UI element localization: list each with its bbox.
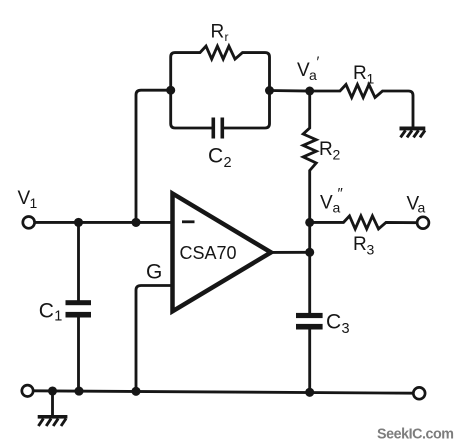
svg-text:C: C — [326, 311, 341, 334]
svg-text:CSA70: CSA70 — [180, 243, 237, 263]
svg-text:SeekIC.com: SeekIC.com — [377, 427, 454, 443]
svg-text:R: R — [353, 234, 367, 255]
svg-text:C: C — [208, 145, 223, 168]
svg-text:1: 1 — [367, 71, 375, 87]
svg-text:a: a — [418, 200, 426, 216]
svg-text:1: 1 — [30, 195, 38, 211]
svg-text:2: 2 — [224, 155, 232, 171]
svg-text:′: ′ — [317, 54, 320, 71]
svg-text:″: ″ — [338, 185, 344, 202]
svg-text:R: R — [319, 139, 333, 160]
svg-text:R: R — [353, 63, 367, 84]
svg-text:G: G — [146, 261, 162, 284]
svg-text:3: 3 — [342, 321, 350, 337]
svg-text:r: r — [225, 30, 229, 44]
svg-text:R: R — [211, 22, 225, 43]
svg-text:3: 3 — [367, 242, 375, 258]
svg-text:V: V — [320, 193, 333, 214]
svg-text:1: 1 — [54, 309, 62, 325]
svg-text:C: C — [39, 300, 54, 323]
svg-text:2: 2 — [333, 147, 341, 163]
